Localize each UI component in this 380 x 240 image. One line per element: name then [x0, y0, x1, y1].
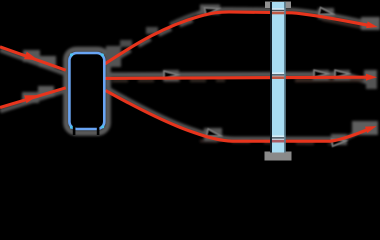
arrowhead black on R3 second — [332, 137, 347, 146]
arrowhead black on R1 right — [319, 7, 334, 17]
ringing: pale band above red R2 inside bar — [272, 72, 284, 76]
arrowhead red on L1 — [24, 52, 40, 64]
lens bar: grey cap at top — [265, 2, 291, 9]
wire: red ray R3 (bottom) — [106, 91, 371, 142]
wire: muted red R2 across bar — [272, 76, 284, 79]
blob: noise around left arrow 2 — [22, 92, 39, 103]
lens bar: grey pedestal at bottom — [265, 152, 292, 161]
arrowhead black on R3 first — [206, 129, 221, 140]
wire halo: noise band along ray R3 — [106, 88, 378, 139]
ringing: pale band above red R1 inside bar — [272, 8, 284, 12]
wire halo: noise band along ray R2 — [110, 74, 376, 84]
blob: noise around R3 first arrowhead — [204, 128, 222, 141]
node: black tick marks crossing bottom edge of box — [73, 124, 76, 135]
blob: noise around R3 tip — [352, 121, 378, 135]
wire: red ray R1 (top) — [105, 12, 372, 64]
blob: noise around R3 second arrowhead — [331, 134, 347, 145]
wire: red ray L2 — [0, 88, 66, 108]
wire halo: noise band along ray R1 (upper side after bend, lower before) — [105, 18, 199, 66]
arrowhead red on L2 — [24, 91, 40, 103]
blob: noise around R2 arrowheads right — [313, 70, 329, 80]
lens bar: light blue body — [270, 2, 286, 153]
blob: noise around R1 tip — [361, 17, 380, 30]
wire: red ray R2 (middle) — [105, 77, 371, 78]
lens bar: dark left border — [270, 2, 272, 153]
wire: muted red R1 across bar — [272, 12, 284, 15]
box: blue rounded rectangle outline — [69, 53, 104, 129]
node: cyan corner accents — [70, 53, 73, 56]
arrowhead black on R2 mid — [164, 71, 178, 78]
arrowhead black on R1 mid — [204, 5, 219, 15]
lens bar: right border — [284, 2, 286, 153]
blob: noise around R1 mid arrowhead — [200, 5, 220, 15]
blob: noise around R2 mid arrowhead — [163, 70, 179, 81]
arrowhead black on R2 at x=321 — [314, 70, 328, 77]
blob: noise around R1 right arrowhead — [318, 8, 334, 19]
blob: noise right of box top corner — [106, 46, 121, 67]
wire: muted red R3 across bar — [272, 140, 284, 143]
arrowhead red tip R1 — [366, 21, 378, 30]
blob: noise around left arrow 1 — [23, 50, 40, 62]
arrowhead red tip R3 — [365, 123, 378, 133]
ringing: pale band above red R3 inside bar — [272, 135, 284, 139]
arrowhead black on R2 at x=342 — [335, 70, 349, 77]
box halo: grey jpeg noise ring around blue box — [66, 50, 108, 133]
wire: red ray L1 — [0, 47, 66, 70]
wire halo: noise band under left ray 1 — [0, 50, 65, 74]
blob: noise around R2 tip — [364, 70, 377, 82]
wire halo: noise band under left ray 2 — [0, 91, 65, 112]
arrowhead red tip R2 — [366, 74, 377, 81]
